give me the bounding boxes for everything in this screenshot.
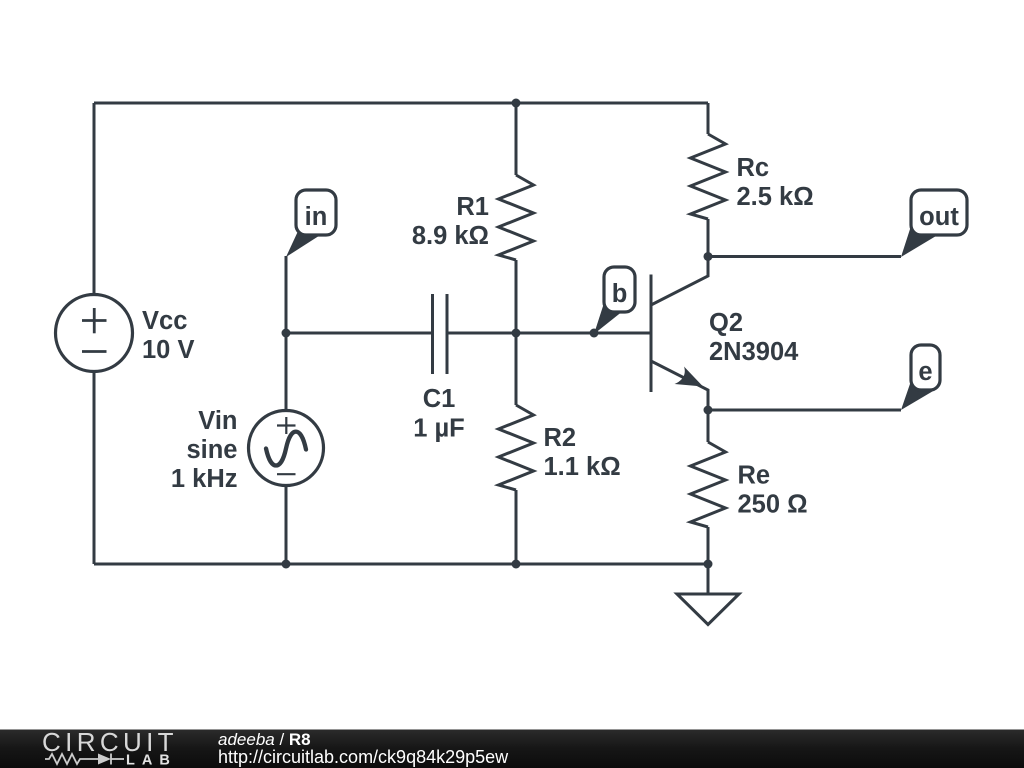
- svg-text:out: out: [919, 203, 959, 231]
- svg-text:Vcc: Vcc: [142, 307, 187, 335]
- svg-text:2.5 kΩ: 2.5 kΩ: [737, 183, 814, 211]
- svg-text:2N3904: 2N3904: [709, 338, 799, 366]
- svg-text:250 Ω: 250 Ω: [738, 491, 808, 519]
- svg-text:1.1 kΩ: 1.1 kΩ: [544, 453, 621, 481]
- svg-text:Re: Re: [738, 462, 771, 490]
- svg-text:http://circuitlab.com/ck9q84k2: http://circuitlab.com/ck9q84k29p5ew: [218, 747, 509, 767]
- svg-text:C1: C1: [423, 385, 456, 413]
- svg-text:e: e: [918, 358, 932, 386]
- svg-text:1 µF: 1 µF: [413, 415, 465, 443]
- svg-text:8.9 kΩ: 8.9 kΩ: [412, 222, 489, 250]
- svg-text:R2: R2: [544, 424, 577, 452]
- svg-text:Rc: Rc: [737, 154, 770, 182]
- svg-text:1 kHz: 1 kHz: [171, 465, 238, 493]
- svg-text:10 V: 10 V: [142, 336, 194, 364]
- svg-text:sine: sine: [186, 436, 237, 464]
- svg-text:b: b: [612, 280, 628, 308]
- svg-text:R1: R1: [456, 193, 489, 221]
- svg-text:Vin: Vin: [198, 407, 237, 435]
- svg-text:LAB: LAB: [126, 753, 177, 768]
- svg-text:Q2: Q2: [709, 309, 743, 337]
- svg-text:in: in: [305, 203, 328, 231]
